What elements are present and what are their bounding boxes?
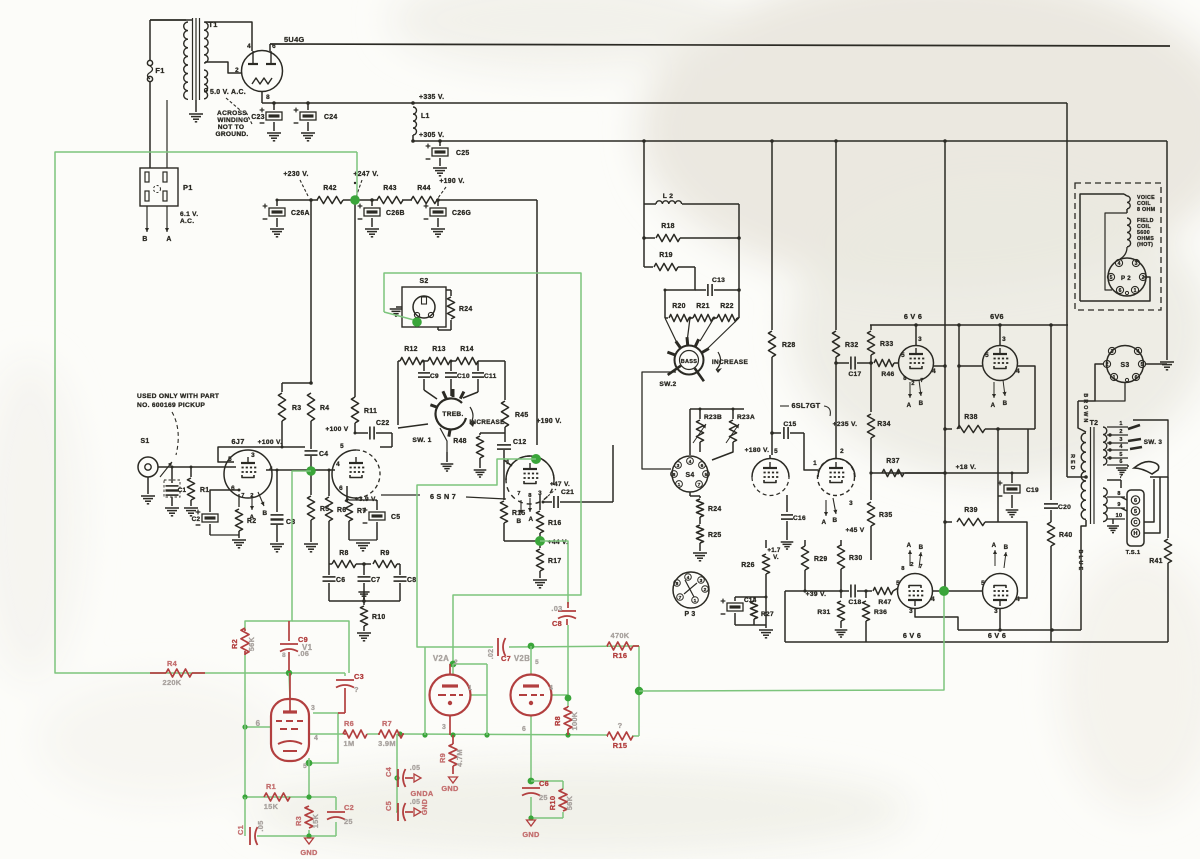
wire [1121,497,1127,511]
wire [771,141,773,330]
wire [276,198,319,202]
svg-text:3: 3 [1119,437,1122,443]
svg-text:5.0 V. A.C.: 5.0 V. A.C. [210,89,246,96]
svg-text:2: 2 [454,659,458,666]
svg-text:R17: R17 [548,558,562,565]
svg-text:R16: R16 [613,651,628,660]
arrow A pin2 [528,498,534,523]
socket S4 [671,456,710,492]
green nodes bus [397,731,570,737]
svg-text:15K: 15K [311,813,320,828]
wire [346,486,348,500]
capacitor C18 [841,585,868,607]
wire bottom bus [785,641,1168,643]
svg-text:A: A [992,542,997,549]
tube 6SL7 B [818,448,856,507]
svg-text:R23B: R23B [704,414,722,421]
green wire out long [639,596,944,691]
svg-text:V2B: V2B [514,654,530,663]
svg-text:100K: 100K [570,711,579,730]
svg-text:R1: R1 [200,487,209,494]
svg-text:C12: C12 [513,439,527,446]
arrow B 6SL7 [833,498,838,524]
svg-text:4: 4 [1137,349,1140,355]
svg-text:1M: 1M [344,739,355,748]
label +247V [353,171,378,197]
svg-text:.02: .02 [488,649,495,659]
switch SW3 [1128,420,1168,477]
green wire R10 top [531,781,563,789]
capacitor C23 [251,103,282,141]
svg-text:R47: R47 [878,599,891,606]
svg-text:4: 4 [1016,596,1020,603]
svg-text:R24: R24 [459,306,473,313]
svg-text:+39 V.: +39 V. [806,591,827,598]
resistor R8b [329,550,371,568]
svg-text:5: 5 [340,443,344,450]
wire [329,599,400,603]
resistor R38 [943,414,1035,433]
wire [261,91,263,103]
green wire pin3 loop [309,713,338,763]
capacitor C7b [358,564,381,601]
inductor L1 [413,107,430,135]
red resistor R15 [607,721,633,750]
red capacitor C1 [236,820,265,845]
wire [735,597,766,601]
svg-text:A.C.: A.C. [180,218,194,225]
wire [158,466,223,469]
svg-text:C1: C1 [236,825,245,835]
svg-text:BASS: BASS [681,359,698,365]
capacitor C19 [998,473,1039,517]
svg-text:R19: R19 [659,252,673,259]
svg-text:8 OHM: 8 OHM [1137,207,1156,213]
resistor R16 [536,511,561,541]
tube 6J7 [224,437,282,499]
svg-text:470K: 470K [611,631,630,640]
green wire V1 pin4 bus [309,733,344,735]
resistor R22 [713,303,739,322]
svg-text:GND: GND [422,799,429,815]
svg-text:3: 3 [677,463,680,469]
svg-text:4: 4 [931,596,935,603]
wire [504,540,540,542]
svg-text:2: 2 [1142,275,1145,281]
svg-text:GND: GND [522,830,540,839]
label brown [1082,393,1088,422]
wire plate row [266,468,335,472]
increase arrow bass [712,352,749,373]
wire [690,492,700,496]
svg-text:4: 4 [247,43,251,50]
svg-text:R30: R30 [849,555,863,562]
svg-text:+230 V.: +230 V. [283,171,308,178]
svg-text:C20: C20 [1058,504,1071,511]
resistor R46 [871,359,899,378]
capacitor C15 [772,421,818,470]
red capacitor C9 [280,621,309,671]
svg-text:B: B [919,400,924,407]
resistor R14 [450,346,505,365]
label 6SL7GT [780,401,830,416]
note across winding [215,110,252,138]
svg-text:R27: R27 [761,611,774,618]
arrow B pin2 [517,500,523,525]
svg-text:GND: GND [300,848,318,857]
svg-text:1: 1 [694,598,697,604]
resistor R44 [411,185,437,204]
svg-text:+180 V.: +180 V. [745,447,770,454]
svg-text:GROUND.: GROUND. [215,131,248,138]
label 6V6 ur [990,312,1004,321]
wire grid cap [218,446,305,463]
svg-text:+1.7: +1.7 [767,547,781,554]
green node +44V [535,536,545,546]
svg-text:4: 4 [549,685,553,692]
svg-text:6: 6 [701,463,704,469]
svg-text:3: 3 [849,500,853,507]
capacitor C26C [424,200,472,237]
wire blue [1077,520,1086,630]
red tube V2B [511,654,554,733]
capacitor C14 [721,597,757,625]
wire [436,198,537,202]
resistor R36 [862,591,887,642]
wire [504,460,512,470]
svg-text:P1: P1 [183,183,193,192]
wire [1017,366,1035,429]
svg-text:?: ? [618,721,623,730]
svg-text:+100 V.: +100 V. [258,439,283,446]
ground [390,307,403,316]
svg-text:5: 5 [535,659,539,666]
wire [343,198,378,202]
arrow B ur [1002,380,1007,407]
red resistor R9 [438,735,464,774]
fuse F1 [147,20,164,168]
label +100V [325,426,356,435]
resistor R24v [696,496,721,524]
svg-text:+47 V.: +47 V. [550,481,570,488]
svg-text:5: 5 [985,352,989,359]
wire [932,590,983,592]
svg-text:R8: R8 [553,716,562,726]
svg-text:6: 6 [1134,498,1137,504]
svg-text:8: 8 [676,581,679,587]
wire HT rail top [270,44,1170,46]
svg-text:SW. 1: SW. 1 [412,437,431,444]
wire [643,141,645,204]
resistor R19 [644,252,695,271]
label +335V [411,94,444,105]
svg-text:2: 2 [910,562,914,568]
svg-text:R9: R9 [438,753,447,763]
note pickup [137,393,219,455]
tube 6V6 upper right [983,336,1021,381]
tube 6SN7 second half [506,456,554,504]
svg-text:P 2: P 2 [1121,275,1131,282]
svg-text:3: 3 [442,724,446,731]
wire [223,466,236,468]
svg-text:7: 7 [920,378,924,384]
wire +230 feed [310,200,312,383]
svg-text:R42: R42 [323,185,337,192]
green wire V2A loop [425,646,639,647]
svg-text:R34: R34 [877,421,891,428]
svg-text:25: 25 [539,793,548,802]
wire [150,19,192,21]
svg-text:A: A [822,519,827,526]
svg-text:INCREASE: INCREASE [469,419,504,426]
svg-text:C7: C7 [501,654,511,663]
wire [915,608,958,630]
svg-text:C5: C5 [384,801,393,811]
wire [166,100,168,168]
green wire V1 pin6 [242,724,272,729]
wire [480,430,505,433]
resistor R6b [325,470,346,564]
pot R23B [693,409,722,452]
svg-text:2: 2 [911,381,915,387]
wire [835,141,837,330]
red resistor R16 [607,631,639,660]
tube 6SN7 first half [332,443,380,498]
svg-text:6 V 6: 6 V 6 [904,312,922,321]
svg-text:5U4G: 5U4G [284,35,305,44]
svg-text:R33: R33 [880,341,894,348]
svg-text:S4: S4 [685,472,694,479]
red ground GND R9 [441,777,459,793]
resistor R31 [817,591,847,637]
ground [1116,465,1128,475]
svg-text:R40: R40 [1059,532,1073,539]
green node R42/R43 [350,195,360,205]
resistor R30 [837,545,862,593]
label 6V6 lr [988,631,1006,640]
red capacitor C4r [384,765,420,787]
svg-text:R10: R10 [548,796,557,811]
svg-text:5: 5 [303,763,307,770]
svg-text:C19: C19 [1026,487,1039,494]
svg-text:R24: R24 [708,506,722,513]
svg-text:3: 3 [994,608,998,615]
label red [1069,454,1075,470]
label field coil [1137,218,1154,248]
wire [690,408,744,456]
svg-text:C9: C9 [430,373,439,380]
capacitor C3 [270,470,295,552]
ground [189,100,203,122]
arrow A ll [907,542,912,566]
svg-text:2: 2 [840,448,844,455]
green wire to R42 node [356,152,358,198]
wire [1078,364,1103,401]
wire +247 feed [354,201,356,395]
svg-text:5: 5 [981,580,985,587]
svg-text:5: 5 [1110,275,1113,281]
label +47V [548,481,570,496]
svg-text:B: B [142,236,147,243]
svg-text:.05: .05 [410,799,420,806]
svg-text:R20: R20 [672,303,686,310]
wire [282,381,313,392]
svg-text:3: 3 [251,452,255,459]
svg-text:R4: R4 [320,405,329,412]
resistor R34 [833,363,891,455]
svg-text:7: 7 [517,491,521,497]
resistor R12 [400,346,425,365]
capacitor C1 [164,467,187,516]
svg-text:C15: C15 [783,421,796,428]
svg-text:ACROSS: ACROSS [217,110,247,117]
svg-text:4: 4 [932,368,936,375]
capacitor C4 [305,447,329,470]
green wire C1 left [244,797,246,836]
svg-text:C17: C17 [848,371,861,378]
svg-text:15K: 15K [264,802,279,811]
svg-text:A: A [166,236,171,243]
green wire R1 row [242,794,336,799]
svg-text:R1: R1 [266,782,276,791]
svg-text:+335 V.: +335 V. [419,94,444,101]
pickup arrow [160,462,172,477]
red capacitor C6 [522,779,549,802]
green node C6 top [528,778,535,785]
svg-text:WINDING: WINDING [217,117,248,124]
resistor R37 [869,458,945,477]
resistor R11 [351,395,377,433]
label 6SN7 [381,492,506,501]
svg-text:8: 8 [673,472,676,478]
svg-text:B: B [1003,400,1008,407]
svg-text:S2: S2 [419,278,428,285]
wire center tap [1067,475,1088,479]
svg-text:R48: R48 [453,438,467,445]
svg-text:.05: .05 [256,820,265,831]
resistor R17 [533,541,562,588]
transformer T1 [184,18,218,100]
svg-text:B L U E: B L U E [1077,550,1083,571]
green wire V2A left [424,647,426,735]
svg-text:6: 6 [256,719,261,728]
svg-text:56K: 56K [247,636,256,651]
svg-text:R11: R11 [364,408,377,415]
wire +190 feed [536,200,538,445]
label +39V [806,591,827,598]
capacitor C22 [355,420,392,447]
resistor R43 [377,185,403,204]
resistor R47 [866,587,898,606]
svg-text:2: 2 [235,67,239,74]
svg-text:C6: C6 [336,577,345,584]
green wire S2 loop top [384,273,581,664]
red resistor R3 [294,806,320,828]
svg-text:+235 V.: +235 V. [833,421,858,428]
svg-text:R15: R15 [512,510,526,517]
svg-text:C26A: C26A [291,210,310,217]
svg-text:1: 1 [1113,375,1116,381]
green wire main loop [55,152,357,673]
label 6V6 ul [904,312,922,321]
capacitor C26B [358,200,405,237]
svg-text:R22: R22 [720,303,734,310]
svg-text:(HOT): (HOT) [1137,242,1153,248]
svg-text:?: ? [354,685,359,694]
svg-text:C22: C22 [376,420,390,427]
red ground GND V1 [300,838,318,857]
svg-text:+100 V: +100 V [325,426,348,433]
svg-text:5: 5 [1119,452,1122,458]
svg-text:3.9M: 3.9M [378,739,396,748]
svg-text:6: 6 [1119,288,1122,294]
svg-text:R21: R21 [696,303,710,310]
capacitor C9b [418,361,439,390]
resistor R41 [1149,477,1171,642]
svg-text:5: 5 [774,448,778,455]
svg-text:C26G: C26G [452,210,471,217]
socket P3 [673,572,709,618]
terminal strip TS1 [1126,490,1144,556]
tube 6V6 lower left [896,562,935,615]
svg-text:6J7: 6J7 [231,437,244,446]
svg-text:4: 4 [1118,261,1121,267]
wire brown [1078,401,1086,432]
green wire pin1 drop [470,664,487,735]
red label V1 [282,643,313,659]
svg-text:+190 V.: +190 V. [439,178,464,185]
svg-text:R E D: R E D [1069,454,1075,470]
wire [835,363,837,455]
capacitor C8b [394,577,417,601]
green wire staircase [245,471,311,629]
svg-text:SW. 3: SW. 3 [1144,439,1163,446]
wire [735,597,773,638]
green wire S2 stub [384,312,414,320]
capacitor C25 [426,141,470,176]
svg-text:6V6: 6V6 [990,312,1004,321]
wire [998,608,1002,632]
red capacitor C3 [336,672,364,713]
svg-text:C: C [1134,520,1138,526]
plug P1 [140,168,193,206]
capacitor C26A [263,200,310,237]
resistor R2 [232,509,256,548]
wire [664,267,696,318]
pot R23A [712,409,755,460]
wire [402,199,412,201]
green wire R2 bottom [244,655,246,797]
svg-text:R36: R36 [874,609,887,616]
wire [205,62,241,73]
label +180V [745,447,770,454]
svg-text:R32: R32 [845,342,859,349]
wire [1146,363,1167,365]
speaker dashed box [1075,183,1161,310]
resistor R24 [438,290,473,330]
svg-text:+305 V.: +305 V. [419,132,444,139]
wire [612,445,614,502]
svg-text:R12: R12 [404,346,418,353]
resistor R45 [501,361,528,430]
resistor R3 [278,393,301,447]
green wire R15 right [632,735,639,737]
svg-text:H: H [1134,531,1138,537]
svg-text:B R O W N: B R O W N [1082,393,1088,422]
voice coil [1105,194,1130,290]
green wire C3 drop [344,673,346,676]
label +190V [438,178,465,198]
